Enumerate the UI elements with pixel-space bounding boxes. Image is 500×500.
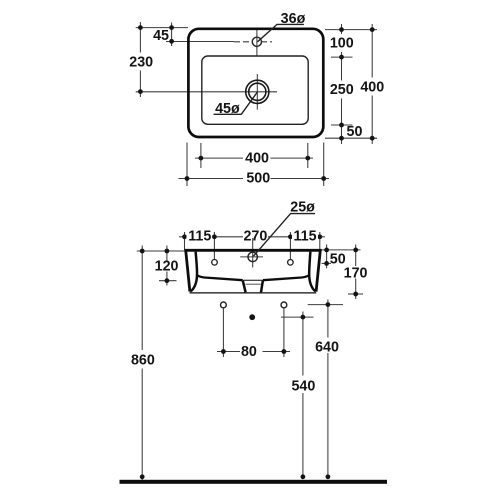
svg-text:45: 45 [153,28,169,44]
svg-text:270: 270 [243,228,267,244]
svg-text:230: 230 [129,54,153,70]
svg-text:500: 500 [246,171,270,187]
svg-text:400: 400 [360,80,384,96]
svg-text:25ø: 25ø [290,199,315,215]
svg-text:170: 170 [344,266,368,282]
svg-text:640: 640 [315,340,339,356]
svg-text:100: 100 [330,36,354,52]
svg-text:115: 115 [293,228,316,244]
svg-text:540: 540 [291,379,315,395]
svg-text:45ø: 45ø [215,101,240,117]
svg-text:400: 400 [245,150,269,166]
svg-text:120: 120 [155,258,179,274]
svg-text:115: 115 [188,228,211,244]
svg-text:50: 50 [347,124,363,140]
svg-text:250: 250 [330,82,354,98]
svg-text:860: 860 [131,353,155,369]
svg-text:80: 80 [241,344,257,360]
svg-text:36ø: 36ø [281,11,306,27]
